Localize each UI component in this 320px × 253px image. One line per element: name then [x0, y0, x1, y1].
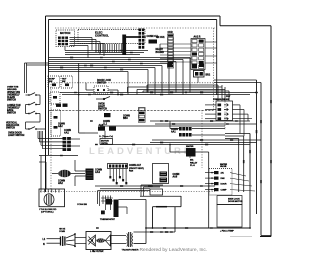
svg-text:COMB: COMB	[59, 231, 66, 233]
svg-text:SWITCH: SWITCH	[7, 113, 16, 115]
svg-text:MA: MA	[190, 159, 194, 162]
svg-text:DOOR MOTOR: DOOR MOTOR	[228, 201, 243, 203]
svg-text:SWITCH: SWITCH	[6, 128, 15, 130]
svg-text:CONN BB: CONN BB	[77, 204, 88, 206]
svg-text:AA2: AA2	[58, 125, 63, 128]
svg-text:(OPTIONAL): (OPTIONAL)	[41, 210, 54, 213]
svg-text:TRANSFORMER: TRANSFORMER	[122, 249, 139, 252]
svg-text:O. (Timer+Cn): O. (Timer+Cn)	[99, 135, 113, 138]
svg-text:COMP: COMP	[221, 190, 228, 192]
svg-text:Rendered by LeadVenture, Inc.: Rendered by LeadVenture, Inc.	[140, 247, 208, 253]
svg-text:NN CU1: NN CU1	[156, 37, 165, 39]
svg-text:AA1: AA1	[171, 130, 176, 133]
svg-text:SWITCH: SWITCH	[98, 109, 107, 111]
svg-text:LIGHT SWITCH: LIGHT SWITCH	[8, 135, 25, 137]
svg-text:VALVE: VALVE	[220, 165, 227, 168]
svg-text:DOOR: DOOR	[221, 184, 228, 186]
svg-text:LEADVENTURE: LEADVENTURE	[89, 146, 193, 157]
svg-text:CLEAN: CLEAN	[7, 96, 15, 99]
svg-text:BAKE: BAKE	[7, 109, 14, 112]
svg-text:+ FDA A TEMP: + FDA A TEMP	[220, 229, 234, 232]
svg-text:HA2: HA2	[58, 182, 63, 185]
svg-text:UPPER TAN: UPPER TAN	[7, 91, 20, 94]
svg-text:AA1 R: AA1 R	[194, 35, 201, 38]
svg-text:SW: SW	[49, 81, 52, 83]
svg-text:FAN: FAN	[129, 169, 134, 172]
svg-text:AA4: AA4	[95, 171, 100, 174]
svg-text:CONTROL: CONTROL	[95, 34, 109, 38]
svg-text:RELAY: RELAY	[190, 161, 198, 164]
svg-text:SWITCH: SWITCH	[97, 83, 106, 85]
svg-text:LOWER TAN: LOWER TAN	[7, 104, 21, 107]
svg-text:AA1: AA1	[64, 132, 69, 135]
svg-text:BR2: BR2	[206, 75, 211, 77]
svg-text:SW: SW	[62, 81, 65, 83]
svg-text:BB3: BB3	[123, 118, 128, 120]
svg-text:SWITCH: SWITCH	[7, 100, 16, 102]
svg-text:GROUND: GROUND	[7, 89, 17, 91]
svg-text:VERTICAL: VERTICAL	[6, 122, 18, 125]
svg-text:FAN: FAN	[221, 177, 226, 180]
svg-text:LL1: LL1	[103, 123, 108, 125]
svg-text:THERMOSTAT: THERMOSTAT	[100, 218, 116, 221]
svg-text:A/C: A/C	[221, 172, 225, 175]
svg-text:AA3: AA3	[99, 124, 104, 127]
svg-text:AA8: AA8	[173, 175, 178, 178]
svg-text:CONN AA7: CONN AA7	[129, 164, 142, 167]
svg-text:PL-5: PL-5	[190, 165, 196, 167]
svg-text:WATER: WATER	[186, 145, 194, 148]
svg-text:MOTOR: MOTOR	[60, 31, 70, 35]
svg-text:RELAY: RELAY	[156, 48, 164, 51]
